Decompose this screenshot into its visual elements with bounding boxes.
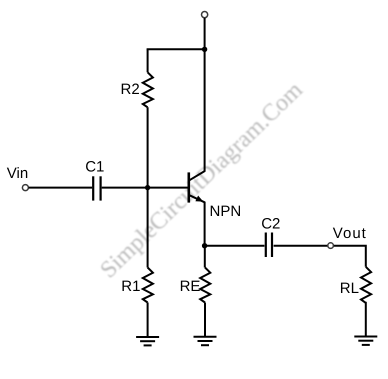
wire C2 to RL corner [274,246,366,267]
svg-text:NPN: NPN [210,203,242,220]
wire junction to collector [204,49,206,171]
capacitor C1 [93,176,100,200]
terminal VCC top [202,12,208,18]
resistor R2 [143,72,153,107]
svg-text:Vin: Vin [7,165,28,182]
wire R2 bottom to R1 top [147,107,149,267]
wire emitter node to C2 [205,245,265,247]
svg-text:RL: RL [340,280,359,297]
wire R1 to ground [147,303,149,338]
svg-text:C1: C1 [85,159,104,176]
wire C1 to base [102,187,188,189]
wire emitter node to RE [204,246,206,268]
terminal Vout [328,243,334,249]
node emitter junction [202,243,207,248]
wire RE to ground [204,303,206,337]
ground RL [354,337,377,345]
ground R1 [136,337,159,345]
wire VCC to junction [204,18,206,49]
transistor Q1 NPN [189,171,205,203]
svg-text:RE: RE [180,278,201,295]
wire RL to ground [365,302,367,337]
wire top rail [147,48,205,50]
node base junction [145,185,150,190]
terminal Vin [22,185,28,191]
resistor RE [200,268,210,303]
svg-text:Vout: Vout [333,225,367,242]
svg-text:C2: C2 [261,216,280,233]
ground RE [194,337,217,345]
svg-text:SimpleCircuitDiagram.Com: SimpleCircuitDiagram.Com [95,77,308,284]
resistor RL [361,267,371,303]
svg-text:R1: R1 [121,278,140,295]
node top junction [202,47,207,52]
wire R2 top lead [147,49,149,72]
wire emitter down [204,202,206,246]
resistor R1 [143,268,153,303]
capacitor C2 [266,233,272,258]
svg-text:R2: R2 [121,81,140,98]
wire Vin to C1 [29,187,93,189]
